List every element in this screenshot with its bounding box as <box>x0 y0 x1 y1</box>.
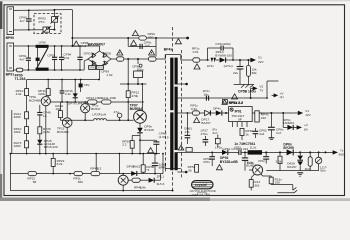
tap pin <box>178 83 188 85</box>
output arrow V2 <box>250 97 252 99</box>
svg-text:BYW98-100: BYW98-100 <box>215 54 232 58</box>
svg-text:IP91: IP91 <box>235 109 242 113</box>
posistor RP92 <box>43 27 50 32</box>
IC pins <box>231 122 233 127</box>
inductor LP14 <box>211 58 214 62</box>
warning triangle <box>216 165 222 170</box>
capacitor CP62 <box>254 128 256 131</box>
svg-text:6.8k: 6.8k <box>140 185 146 189</box>
capacitor CP63 <box>270 113 272 127</box>
svg-text:BA157: BA157 <box>201 121 211 125</box>
return bus <box>27 79 99 81</box>
resistor RP21 68 <box>28 172 36 176</box>
svg-text:9L5.6: 9L5.6 <box>157 182 165 186</box>
svg-text:4u7: 4u7 <box>276 131 281 135</box>
svg-text:800: 800 <box>148 35 153 39</box>
resistor RP15 <box>247 60 249 65</box>
wire <box>50 101 144 103</box>
transistor TP97B <box>118 175 128 185</box>
trimmer R136 <box>318 152 320 157</box>
warning triangle <box>194 64 200 69</box>
svg-text:LP51: LP51 <box>234 145 242 149</box>
svg-text:(LP1x): (LP1x) <box>224 64 233 68</box>
resistor RP97 800 <box>139 36 147 40</box>
svg-text:470u: 470u <box>201 132 208 136</box>
svg-text:1L3x: 1L3x <box>250 146 257 150</box>
resistor RP62 <box>240 128 244 135</box>
svg-text:12V: 12V <box>305 113 311 117</box>
off-page wire A <box>270 183 272 186</box>
capacitor C131 470u <box>265 152 267 156</box>
resistor RA13 100k <box>102 100 111 104</box>
capacitor CP95 <box>80 80 82 84</box>
svg-text:1004: 1004 <box>14 130 21 134</box>
svg-text:3.3k: 3.3k <box>275 159 281 163</box>
svg-text:4u7: 4u7 <box>212 131 217 135</box>
svg-text:2.2: 2.2 <box>122 143 127 147</box>
svg-text:41uH: 41uH <box>99 112 106 116</box>
svg-text:560: 560 <box>78 180 83 184</box>
svg-text:BY299: BY299 <box>283 146 293 150</box>
resistor RP95 4.7 <box>117 57 124 61</box>
svg-text:4n7: 4n7 <box>19 57 24 61</box>
svg-text:9P: 9P <box>238 118 242 122</box>
wire <box>14 45 36 47</box>
svg-text:4u3: 4u3 <box>259 132 264 136</box>
primary ground bus <box>10 153 160 155</box>
svg-text:2.2n: 2.2n <box>65 92 71 96</box>
svg-text:220: 220 <box>261 116 266 120</box>
svg-text:68u: 68u <box>320 168 325 172</box>
capacitor CP98 100u <box>137 59 139 64</box>
svg-text:3k3: 3k3 <box>254 183 259 187</box>
wire <box>178 151 223 153</box>
wire <box>181 59 193 61</box>
resistor RP61 <box>186 148 192 152</box>
resistor RP52 56 <box>195 165 199 173</box>
tap pin <box>178 171 188 173</box>
resistor RP24 <box>25 112 29 119</box>
warning triangle <box>73 41 79 46</box>
svg-text:RP4x 2.2: RP4x 2.2 <box>229 101 243 105</box>
IC IP91 <box>229 107 253 122</box>
svg-text:600x: 600x <box>339 153 346 157</box>
wire <box>118 154 120 174</box>
svg-text:*4: *4 <box>146 168 149 172</box>
resistor RP12 470k <box>127 59 129 91</box>
svg-text:1n5: 1n5 <box>144 44 149 48</box>
wire DC+ <box>111 58 117 60</box>
svg-text:(1.5n: (1.5n <box>159 135 166 139</box>
resistor R135 <box>309 152 311 156</box>
capacitor CP15 <box>61 80 63 91</box>
wire elbow <box>266 81 268 98</box>
ground bus <box>266 170 318 172</box>
label DP90 <box>89 66 96 70</box>
svg-text:220k: 220k <box>38 92 45 96</box>
svg-text:50k: 50k <box>252 71 257 75</box>
diodes D134 <box>299 152 301 155</box>
output arrow V1 12V <box>298 111 303 115</box>
output arrow V3 <box>272 94 274 96</box>
svg-text:(1x: (1x <box>280 95 285 99</box>
resistor S13 3k3 <box>251 174 254 178</box>
svg-text:68: 68 <box>33 180 37 184</box>
svg-text:56: 56 <box>188 169 192 173</box>
svg-text:DP93: DP93 <box>84 52 91 56</box>
wire <box>178 97 268 99</box>
svg-text:BY228-u0B: BY228-u0B <box>220 160 238 164</box>
transistor TP13 BC546B <box>62 118 72 128</box>
resistor R132 3.3k <box>279 152 281 156</box>
svg-text:RA157: RA157 <box>287 165 297 169</box>
svg-text:BP91: BP91 <box>6 73 15 77</box>
primary winding <box>164 55 166 60</box>
svg-text:22V: 22V <box>258 60 264 64</box>
svg-text:BAVRH007: BAVRH007 <box>88 43 106 47</box>
svg-text:370n: 370n <box>258 159 265 163</box>
svg-text:BC546B: BC546B <box>29 98 41 102</box>
wire <box>178 112 193 114</box>
svg-text:RP16 220: RP16 220 <box>44 145 58 149</box>
diode DP17 BA157 <box>205 110 211 115</box>
capacitor CP53 100u <box>244 152 246 157</box>
warning triangle <box>117 50 123 55</box>
warning triangle <box>194 117 200 122</box>
bottom return bus <box>10 190 172 192</box>
label RP40 2.2 <box>222 100 227 105</box>
emitter diode DP98 BY228 <box>139 123 141 128</box>
svg-text:xx ates elek. 97/06: xx ates elek. 97/06 <box>192 193 211 196</box>
capacitor CP60 <box>140 139 156 141</box>
output arrow V1 22V <box>250 58 256 63</box>
resistor RP41 6.8k <box>128 179 132 181</box>
capacitor CP92 <box>37 46 39 58</box>
connector BP91 <box>7 43 14 71</box>
resistor RP25 <box>25 127 29 134</box>
resistor RP13 100k <box>88 100 97 104</box>
svg-text:0.51: 0.51 <box>193 50 199 54</box>
warning triangle <box>148 148 154 153</box>
border frame <box>4 5 345 196</box>
transformer TP90 core <box>172 27 174 54</box>
svg-text:DP90: DP90 <box>89 68 95 70</box>
snubber wire <box>72 37 187 39</box>
svg-text:(1.8k: (1.8k <box>43 130 50 134</box>
svg-text:2n2: 2n2 <box>64 56 69 60</box>
resistor DP30 <box>142 154 144 165</box>
logo stamp <box>192 181 213 189</box>
feedback wire <box>10 173 163 175</box>
wire <box>262 151 333 153</box>
svg-text:crystal: crystal <box>195 183 208 187</box>
resistor RP11 220k <box>47 80 49 89</box>
warning triangle <box>131 40 137 45</box>
diode DP7 <box>74 80 76 94</box>
svg-text:BC546B: BC546B <box>57 130 69 134</box>
svg-text:LP1x: LP1x <box>207 64 215 68</box>
resistor RP22 8.2k <box>52 154 54 159</box>
zener ZPL1 <box>149 178 154 183</box>
svg-text:470k: 470k <box>131 94 138 98</box>
warning triangle <box>132 30 138 35</box>
svg-text:LF90: LF90 <box>39 41 46 45</box>
degauss dashed box <box>34 14 61 34</box>
svg-text:112: 112 <box>96 166 101 170</box>
scan edge artifacts <box>0 0 2 29</box>
svg-text:LP5x: LP5x <box>215 145 223 149</box>
svg-text:BC547: BC547 <box>91 107 101 111</box>
left loop wire <box>11 110 13 154</box>
svg-text:PTC: PTC <box>39 20 46 24</box>
warning triangle <box>149 50 155 55</box>
svg-text:1N4003: 1N4003 <box>283 121 294 125</box>
column CP46 <box>39 105 41 112</box>
svg-text:BP90: BP90 <box>6 36 15 40</box>
output arrow 8V <box>297 125 302 129</box>
resistor RP23 <box>26 80 28 89</box>
return bus <box>120 83 146 85</box>
svg-text:RP13 100k: RP13 100k <box>86 96 102 100</box>
wire <box>14 9 54 11</box>
diode DP64 1N4003 <box>282 113 284 127</box>
svg-text:1.62: 1.62 <box>106 73 112 77</box>
svg-text:22u: 22u <box>233 71 238 75</box>
output arrow 7s <box>333 150 338 154</box>
resistor RP26 <box>25 141 29 148</box>
svg-text:BP4x: BP4x <box>164 48 173 52</box>
resistor RP19 560 <box>74 172 82 176</box>
secondary winding <box>175 58 178 85</box>
label DP92 <box>96 66 103 70</box>
off-page wire B <box>277 192 294 194</box>
emitter wire TP91 <box>45 106 47 154</box>
capacitor CP14 22u <box>239 60 241 66</box>
resistor RP59 2.2 <box>132 134 140 136</box>
svg-text:1n: 1n <box>43 114 47 118</box>
svg-text:CPx: CPx <box>84 83 90 87</box>
svg-text:2n2: 2n2 <box>81 44 86 48</box>
ground <box>234 83 254 85</box>
svg-text:9: 9 <box>167 136 169 140</box>
svg-text:150: 150 <box>275 181 280 185</box>
svg-text:T1.25A: T1.25A <box>15 77 27 81</box>
svg-text:1000: 1000 <box>14 144 21 148</box>
resistor RP42 220 <box>255 111 259 122</box>
base line <box>60 119 93 121</box>
fuse FP90 <box>14 69 17 71</box>
transistor TP12 BC547 <box>81 104 90 113</box>
warning triangle <box>232 94 238 99</box>
svg-text:4099: 4099 <box>14 115 21 119</box>
svg-text:1k: 1k <box>245 133 249 137</box>
svg-text:4n7: 4n7 <box>20 19 25 23</box>
capacitor CP97 <box>139 44 141 49</box>
diode DP65 BY299 <box>287 149 293 155</box>
warning triangle <box>175 39 181 44</box>
svg-text:4.9k: 4.9k <box>16 92 22 96</box>
svg-text:DP4x: DP4x <box>213 106 221 110</box>
resistor RP96 0.27 <box>148 57 156 61</box>
svg-text:RA11 100k: RA11 100k <box>101 96 117 100</box>
svg-text:8.2k: 8.2k <box>57 162 63 166</box>
wire <box>71 10 73 46</box>
resistor R137 150 <box>261 174 263 176</box>
svg-text:BY228: BY228 <box>144 128 154 132</box>
connector BP90 <box>7 7 14 35</box>
capacitor CL90 <box>154 154 156 163</box>
svg-text:BP41: BP41 <box>159 166 167 170</box>
warning triangle <box>178 145 184 150</box>
svg-text:470n: 470n <box>203 160 210 164</box>
